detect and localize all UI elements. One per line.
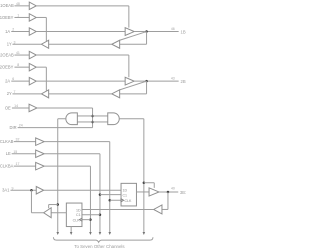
wire AND1 output xyxy=(58,118,66,120)
svg-text:7: 7 xyxy=(13,90,15,94)
svg-text:3: 3 xyxy=(13,40,15,44)
node CLKAB junction xyxy=(109,199,112,202)
wire CLKBA xyxy=(14,165,36,167)
svg-text:40: 40 xyxy=(171,187,175,191)
svg-text:1D: 1D xyxy=(76,208,81,212)
wire 1OEBY to corner xyxy=(36,16,46,18)
wire 2B feedback vertical xyxy=(146,81,148,94)
svg-text:CLKAB: CLKAB xyxy=(0,139,14,144)
wire 1OEAB to right xyxy=(36,5,129,7)
svg-text:15: 15 xyxy=(13,150,17,154)
wire 2B out xyxy=(134,80,179,82)
svg-text:LE: LE xyxy=(6,151,11,156)
wire left box output xyxy=(51,212,66,214)
wire CLKBA to left CLK input xyxy=(82,219,91,221)
svg-text:1D: 1D xyxy=(122,189,127,193)
node 3B1 junction xyxy=(167,191,170,194)
receiver 2B to 2Y xyxy=(112,90,120,98)
wire 1Y xyxy=(12,43,41,45)
driver 1B output buffer xyxy=(125,28,134,36)
svg-text:OE: OE xyxy=(5,105,11,110)
wire 2OEBY enable vertical xyxy=(45,67,47,91)
wire enable-A elbow horizontal xyxy=(49,204,58,206)
wire left box bus vertical xyxy=(70,227,72,232)
receiver 1B to 1Y xyxy=(112,40,120,48)
buffer CLKAB xyxy=(36,138,45,146)
wire enable-B horizontal xyxy=(144,182,154,184)
driver 2B output buffer xyxy=(125,77,134,85)
svg-text:2Y: 2Y xyxy=(7,91,12,96)
buffer 1OEBY input xyxy=(29,14,36,22)
svg-text:1OEAB: 1OEAB xyxy=(0,3,14,8)
wire 1A to driver xyxy=(36,31,125,33)
node LE junction right xyxy=(99,193,102,196)
buffer 1OEAB input xyxy=(29,2,36,9)
wire AND1 input lower xyxy=(77,121,92,123)
buffer 1A input xyxy=(29,28,36,35)
wire 2OEBY to corner xyxy=(36,66,46,68)
svg-text:9: 9 xyxy=(11,186,13,190)
svg-text:3A1: 3A1 xyxy=(2,188,10,193)
wire enable-A elbow vertical xyxy=(48,205,50,209)
wire enable-B bus vertical xyxy=(143,119,145,232)
wire 3B1 out xyxy=(159,191,178,193)
wire 2B feedback horizontal xyxy=(120,93,147,95)
svg-text:DIR: DIR xyxy=(9,125,16,130)
wire 3A1 feedback vertical xyxy=(30,190,32,213)
wire 1OEAB enable vertical xyxy=(128,6,130,28)
wire AND2 input lower xyxy=(93,121,108,123)
driver 3B1 output buffer xyxy=(149,188,159,196)
wire AND1 input upper xyxy=(77,115,92,117)
wire 2Y middle xyxy=(49,93,112,95)
wire 1B feedback horizontal xyxy=(120,43,147,45)
arrow bus 6 xyxy=(143,232,146,235)
register A-to-B box xyxy=(121,183,136,206)
wire 1OEAB xyxy=(14,5,29,7)
wire CLKAB bus vertical xyxy=(109,142,111,232)
wire 3A1 to register xyxy=(44,189,121,191)
wire LE xyxy=(12,153,36,155)
wire LE to left C1 input xyxy=(82,214,100,216)
buffer 3A1 input xyxy=(36,187,43,195)
gate AND2 right-facing xyxy=(108,113,120,125)
brace to other channels xyxy=(53,237,153,242)
wire AND2 output xyxy=(119,118,144,120)
arrow bus 1 xyxy=(56,232,59,235)
wire LE bus vertical xyxy=(99,154,101,232)
driver 3A1 output xyxy=(44,208,52,218)
svg-text:C1: C1 xyxy=(122,193,127,197)
svg-text:1OEBY: 1OEBY xyxy=(0,15,14,20)
wire 2A to driver xyxy=(36,80,125,82)
wire OE to right xyxy=(37,107,93,109)
wire 2OEAB xyxy=(14,54,29,56)
svg-text:2A: 2A xyxy=(5,79,10,84)
svg-text:1Y: 1Y xyxy=(7,42,12,47)
svg-text:2OEAB: 2OEAB xyxy=(0,52,14,57)
svg-text:46: 46 xyxy=(171,27,175,31)
wire 3B1 feedback vertical xyxy=(167,192,169,210)
svg-text:To Seven Other Channels: To Seven Other Channels xyxy=(74,244,125,249)
wire 2Y xyxy=(12,93,41,95)
svg-text:1A: 1A xyxy=(5,29,10,34)
svg-text:2B: 2B xyxy=(181,79,186,84)
node 1B junction xyxy=(145,30,148,32)
buffer CLKBA xyxy=(36,162,45,170)
svg-text:2OEBY: 2OEBY xyxy=(0,65,14,70)
svg-text:CLK: CLK xyxy=(73,218,81,222)
wire enable-A bus vertical xyxy=(57,119,59,232)
node 3A1 junction xyxy=(30,189,33,192)
node LE junction left xyxy=(99,214,102,217)
node junction lower xyxy=(91,121,94,124)
receiver 3B1 xyxy=(154,205,162,214)
wire 3A1 xyxy=(10,189,36,191)
clock wedge left box xyxy=(79,218,82,221)
node enable-A junction xyxy=(57,203,60,206)
svg-text:1B: 1B xyxy=(181,29,186,34)
wire register to OB3 xyxy=(136,191,149,193)
wire 2OEAB enable vertical xyxy=(128,55,130,77)
arrow bus 4 xyxy=(99,232,102,235)
svg-text:3B1: 3B1 xyxy=(180,190,186,195)
wire 1Y middle xyxy=(49,43,112,45)
node enable-B junction xyxy=(143,182,146,185)
driver 1Y output xyxy=(41,40,48,48)
svg-text:CLKBA: CLKBA xyxy=(0,164,14,169)
wire 2B diagonal xyxy=(120,81,147,90)
svg-text:43: 43 xyxy=(171,77,175,81)
wire CLKAB xyxy=(14,141,36,143)
buffer 2A input xyxy=(29,77,36,85)
wire 2OEAB to right xyxy=(36,54,129,56)
wire LE to corner xyxy=(44,153,100,155)
svg-text:CLK: CLK xyxy=(124,199,132,203)
node junction upper xyxy=(91,115,94,118)
wire 3B1 feedback horizontal xyxy=(162,208,168,210)
wire CLKBA to corner xyxy=(44,165,90,167)
wire DIR xyxy=(18,127,93,129)
svg-text:C1: C1 xyxy=(76,213,81,217)
wire 1B feedback vertical xyxy=(146,32,148,45)
node 2B junction xyxy=(145,80,148,83)
wire CLKAB to corner xyxy=(44,141,110,143)
buffer 2OEBY input xyxy=(29,63,36,70)
arrow bus 3 xyxy=(89,232,92,235)
register B-to-A box xyxy=(66,203,82,227)
wire 1OEBY xyxy=(14,16,29,18)
wire OB3 enable vertical xyxy=(153,183,155,188)
wire OE/DIR vertical xyxy=(92,108,94,128)
wire OE xyxy=(12,107,29,109)
wire 2A xyxy=(11,80,29,82)
wire 2OEBY xyxy=(14,66,29,68)
wire CLKAB to CLK input xyxy=(110,199,121,201)
buffer LE xyxy=(36,150,45,158)
driver 2Y output xyxy=(41,90,48,98)
buffer 2OEAB input xyxy=(29,51,36,59)
wire 1A xyxy=(11,31,29,33)
wire AND2 input upper xyxy=(93,115,108,117)
wire B-to-A xyxy=(82,208,154,210)
arrow bus 2 xyxy=(70,232,73,235)
wire CLKBA bus vertical xyxy=(89,166,91,232)
clock wedge right box xyxy=(121,199,124,202)
wire LE to C1 input xyxy=(100,194,121,196)
buffer OE input xyxy=(29,104,37,112)
wire 3A1 feedback horizontal xyxy=(31,212,43,214)
node CLKBA junction xyxy=(89,218,92,221)
wire 1B diagonal xyxy=(120,32,147,41)
gate AND1 left-facing xyxy=(66,113,78,125)
wire 1OEBY enable vertical xyxy=(45,17,47,41)
wire 1B out xyxy=(134,31,179,33)
arrow bus 5 xyxy=(108,232,111,235)
